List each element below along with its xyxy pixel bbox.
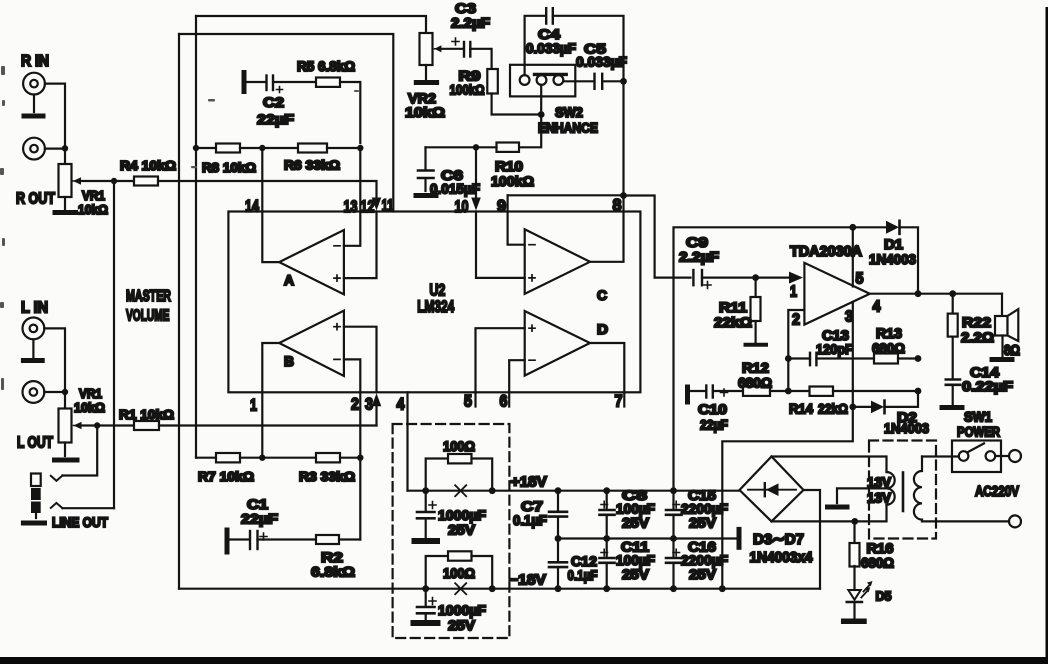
node C7 top (555, 487, 562, 494)
switch SW1 POWER (952, 409, 1009, 473)
ground LINE OUT jack (23, 513, 44, 523)
capacitor C16 2200uF (666, 539, 728, 589)
svg-text:D1: D1 (884, 236, 903, 252)
node C16 bottom (670, 585, 677, 592)
wire R13 to output column (898, 357, 918, 359)
wire R OUT jack to node (45, 148, 65, 150)
svg-text:3: 3 (365, 395, 373, 414)
op-amp U2 LM324 box (228, 212, 640, 393)
svg-text:10kΩ: 10kΩ (78, 202, 108, 217)
svg-text:10kΩ: 10kΩ (74, 400, 105, 415)
wire SW2 node to R10 (519, 115, 541, 148)
wire TDA pin5 to +V rail (852, 227, 854, 286)
speaker 8ohm (995, 294, 1020, 359)
wire U2B inverting to pin2 (344, 359, 360, 392)
wire primary top to SW1 (922, 455, 959, 457)
wire R8 to R6 (240, 147, 298, 149)
wire U2B output to pin1 (262, 343, 279, 392)
node C15 C16 mid (670, 535, 677, 542)
wire D2 to R14 node (885, 391, 919, 407)
wire W1 top rail to VR2 (196, 16, 426, 33)
node +18 snubber right (489, 487, 496, 494)
ground VR1 left (55, 443, 78, 461)
svg-text:10kΩ: 10kΩ (405, 104, 445, 120)
switch SW2 ENHANCE (510, 65, 598, 136)
svg-text:TDA2030A: TDA2030A (790, 244, 863, 260)
fuse mark upper (455, 485, 466, 496)
wire SW2 left contact to C4 (525, 16, 544, 75)
diode D2 1N4003 (853, 401, 929, 436)
wire pin1 column (261, 392, 263, 457)
wire pin8 node to C9 (624, 196, 691, 278)
svg-text:R4 10kΩ: R4 10kΩ (120, 158, 176, 173)
svg-text:0.1µF: 0.1µF (568, 567, 598, 583)
wire center tap (837, 488, 887, 503)
wire TDA pin2 down (788, 310, 804, 391)
node R8 left (193, 145, 199, 151)
capacitor C11 100uF (600, 539, 656, 589)
svg-text:680Ω: 680Ω (738, 375, 772, 391)
svg-text:R11: R11 (719, 299, 747, 315)
svg-text:6: 6 (500, 392, 508, 411)
svg-text:25V: 25V (622, 566, 650, 582)
wire C3 to R9 (470, 49, 491, 69)
svg-text:22kΩ: 22kΩ (714, 314, 752, 330)
svg-text:D: D (597, 321, 608, 337)
capacitor C7 0.1uF (513, 491, 567, 539)
resistor R12 680 (738, 360, 772, 396)
wire bridge bottom to secondary (772, 505, 887, 521)
jack J1 R IN (21, 53, 49, 95)
svg-text:POWER: POWER (957, 424, 1000, 440)
node -18 snubber right (489, 585, 496, 592)
wire TDA output row (870, 293, 1002, 295)
ground center tap (828, 505, 848, 510)
op-amp U1 TDA2030A (790, 244, 881, 329)
wire C5 node to pin8 node (622, 81, 624, 195)
node pin2 feedback (357, 455, 363, 461)
wire pin9 to pin8 node (508, 194, 624, 196)
resistor R8 10k (202, 144, 256, 176)
potentiometer VR1 (right) (59, 152, 109, 218)
wire C1 to R2 (258, 538, 317, 540)
wire node to C6 (426, 146, 477, 148)
svg-text:R5 6.8kΩ: R5 6.8kΩ (297, 59, 355, 74)
wire U2C inverting to pin9 (508, 195, 525, 244)
svg-text:1N4003x4: 1N4003x4 (750, 550, 813, 566)
svg-text:0.22µF: 0.22µF (962, 378, 1014, 394)
svg-text:C2: C2 (263, 94, 284, 110)
wire pin3 to -18V (722, 407, 853, 589)
wire U2A output to pin14 (262, 212, 279, 263)
node R input junction (62, 145, 68, 151)
resistor R3 33k (299, 453, 355, 484)
node R22 tap (949, 290, 956, 297)
svg-text:22µF: 22µF (257, 111, 295, 127)
svg-text:100kΩ: 100kΩ (450, 82, 485, 98)
wire VR1 wiper to R4 (81, 180, 134, 182)
svg-text:1N4003: 1N4003 (884, 420, 929, 436)
ground bar mid row (737, 529, 742, 547)
wire pin4 to +18V (406, 392, 408, 490)
svg-text:D5: D5 (876, 589, 892, 604)
svg-text:4: 4 (397, 395, 405, 414)
svg-text:680Ω: 680Ω (872, 340, 905, 356)
node -18 snubber left (422, 585, 429, 592)
node C4 C5 junction (620, 78, 627, 85)
svg-text:0.033µF: 0.033µF (526, 40, 576, 56)
wire R2 to node2 (339, 538, 360, 540)
bridge rectifier D3-D7 (740, 457, 804, 522)
scan border bottom (0, 657, 1048, 664)
wire L IN jack to node (44, 328, 65, 392)
resistor R2 6.8k (311, 535, 355, 580)
node output (915, 290, 922, 297)
wire C5 to node (602, 80, 623, 82)
svg-text:L IN: L IN (21, 300, 48, 317)
wire D1 to output column (900, 227, 919, 293)
fuse mark lower (455, 583, 466, 594)
wire C4 to C5 node (553, 16, 624, 78)
node pin13 feedback (357, 145, 363, 151)
diode D1 1N4003 (869, 221, 916, 267)
wire TDA pin3 down (852, 302, 854, 407)
node pin8 (620, 192, 627, 199)
ground speaker (992, 336, 1012, 360)
svg-text:100Ω: 100Ω (443, 565, 475, 581)
pin 3 label and arrow (365, 393, 381, 425)
wire R12 to node (770, 390, 788, 392)
capacitor C9 2.2uF (679, 234, 719, 289)
wire line-out switch lower (63, 507, 115, 509)
terminal AC bottom (1009, 515, 1021, 527)
arrow into TDA pin1 (789, 272, 803, 284)
wire -18V rail (179, 588, 820, 590)
text MASTER VOLUME (126, 288, 171, 325)
wire C10 to R12 (713, 390, 743, 392)
pin 10 label and arrow (455, 197, 481, 216)
svg-text:VR1: VR1 (79, 386, 102, 401)
terminal AC top (1009, 450, 1021, 462)
node R16 tap (851, 518, 858, 525)
node C8 C11 mid (603, 535, 610, 542)
svg-text:12: 12 (361, 197, 375, 216)
jack J4 L OUT (17, 381, 53, 451)
capacitor 1000uF lower (417, 589, 486, 633)
svg-text:13: 13 (344, 197, 358, 216)
resistor 100 ohm upper (426, 438, 493, 491)
resistor R5 6.8k (297, 59, 355, 87)
node C11 bottom (603, 585, 610, 592)
svg-text:1: 1 (790, 284, 797, 301)
transformer core (902, 473, 905, 512)
svg-text:0.1µF: 0.1µF (513, 512, 547, 528)
svg-text:100kΩ: 100kΩ (491, 173, 534, 189)
node L wiper junction (94, 422, 100, 428)
ground VR1 right (55, 197, 76, 213)
op-amp U2D (525, 311, 608, 376)
ground C6 (416, 193, 436, 198)
switch contact upper (line out) (51, 476, 63, 481)
svg-text:−18V: −18V (509, 573, 546, 589)
svg-text:A: A (284, 272, 294, 288)
resistor R6 33k (284, 144, 340, 173)
node pin5 rail (849, 224, 856, 231)
svg-text:680Ω: 680Ω (861, 555, 894, 571)
node R13 right (915, 355, 922, 362)
svg-text:2.2µF: 2.2µF (451, 15, 490, 31)
svg-text:L OUT: L OUT (17, 435, 53, 452)
node C7 C12 mid (555, 535, 562, 542)
wire master volume line down (113, 181, 115, 508)
node R12 R14 (785, 388, 792, 395)
node pin14 feedback (259, 145, 265, 151)
svg-text:120pF: 120pF (816, 341, 853, 357)
svg-text:22µF: 22µF (241, 511, 279, 527)
node -18 D2 junction (719, 585, 726, 592)
capacitor C4 0.033uF (526, 8, 576, 56)
wire R3 to node2 (340, 457, 360, 459)
svg-text:2.2Ω: 2.2Ω (961, 329, 994, 345)
svg-text:C: C (597, 287, 607, 303)
wire U2D non-inverting to pin5 (476, 328, 525, 406)
node L input junction (62, 389, 68, 395)
wire +18V rail (408, 490, 740, 492)
svg-text:R10: R10 (495, 158, 523, 174)
wire U2A inverting to pin13 (344, 212, 360, 246)
capacitor C1 22uF (227, 496, 279, 552)
switch contact lower (line out) (51, 503, 63, 508)
wire R5 to node13 (340, 82, 360, 143)
node C6 pin10 (473, 144, 479, 150)
wire C2 to R5 (273, 81, 316, 83)
capacitor C14 0.22uF (946, 337, 1014, 404)
transformer T1 dashed box (869, 441, 936, 539)
resistor 100 ohm lower (426, 551, 493, 588)
svg-text:8: 8 (613, 196, 622, 215)
svg-text:R12: R12 (742, 360, 769, 376)
capacitor C8 100uF (600, 487, 656, 539)
svg-text:100Ω: 100Ω (443, 438, 475, 454)
wire -18 feed from bridge (804, 490, 821, 589)
svg-text:25V: 25V (448, 617, 476, 633)
capacitor C6 0.015uF (418, 147, 480, 196)
svg-text:8Ω: 8Ω (1004, 343, 1020, 359)
wire node13 to pin13 (359, 148, 361, 212)
node C15 top (670, 487, 677, 494)
svg-text:VR1: VR1 (82, 188, 105, 203)
wire R9 to SW2 node (492, 94, 542, 115)
wire pin14 column (261, 148, 263, 212)
dashed box power filter (393, 424, 510, 638)
svg-text:R8 10kΩ: R8 10kΩ (202, 160, 256, 175)
capacitor C10 22uF (688, 386, 729, 433)
wire R7 to R3 (240, 457, 316, 459)
svg-text:R1 10kΩ: R1 10kΩ (119, 407, 174, 422)
svg-text:C10: C10 (698, 401, 727, 417)
svg-text:25V: 25V (448, 522, 476, 538)
jack J2 R OUT (16, 138, 55, 208)
node pin1 feedback (259, 455, 265, 461)
wire primary bottom to AC terminal (922, 520, 1009, 522)
svg-text:10: 10 (455, 197, 469, 216)
svg-text:R13: R13 (876, 325, 902, 341)
wire ground mid row (558, 537, 737, 539)
svg-text:1000µF: 1000µF (438, 602, 486, 618)
capacitor C13 120pF (788, 327, 874, 365)
svg-text:22kΩ: 22kΩ (818, 401, 848, 417)
svg-text:6.8kΩ: 6.8kΩ (311, 564, 355, 580)
capacitor C5 0.033uF (576, 41, 627, 89)
wire U2C output to pin8 (590, 196, 624, 262)
svg-text:R22: R22 (962, 314, 991, 330)
svg-text:5: 5 (464, 392, 472, 411)
LED D5 (847, 566, 892, 604)
svg-text:R7 10kΩ: R7 10kΩ (198, 469, 254, 484)
wire L wiper to line-out switch (63, 426, 98, 476)
ground 1000uF upper (415, 538, 438, 544)
capacitor C2 22uF (244, 73, 295, 128)
wire R1 to pin 3 (159, 424, 377, 426)
svg-text:1: 1 (250, 396, 257, 415)
svg-text:22µF: 22µF (700, 417, 728, 433)
svg-text:5: 5 (856, 271, 864, 288)
svg-text:2: 2 (792, 312, 800, 329)
wire R IN jack to node (45, 84, 65, 148)
wire node to R8 (196, 147, 216, 149)
op-amp U2A (279, 230, 344, 294)
potentiometer VR2 10k (405, 33, 445, 120)
capacitor 1000uF upper (417, 491, 486, 538)
svg-text:AC220V: AC220V (975, 484, 1019, 500)
svg-text:R6 33kΩ: R6 33kΩ (284, 158, 340, 173)
resistor R10 100k (491, 143, 534, 190)
node C12 bottom (555, 585, 562, 592)
svg-text:0.033µF: 0.033µF (576, 54, 627, 70)
svg-text:ENHANCE: ENHANCE (538, 120, 598, 136)
jack J3 L IN (21, 300, 48, 340)
svg-text:R OUT: R OUT (16, 191, 55, 208)
wire U2D output to pin7 (590, 343, 624, 407)
svg-text:SW2: SW2 (555, 104, 583, 120)
capacitor C15 2200uF (666, 487, 728, 539)
resistor R9 100k (450, 68, 498, 98)
resistor R14 22k (788, 387, 848, 417)
wire node to pin10 (475, 147, 477, 197)
svg-text:4: 4 (873, 299, 881, 316)
node R11 top (752, 274, 759, 281)
wire +V rail from C15 column (674, 227, 887, 490)
node R14 right (915, 388, 922, 395)
node +18 snubber left (422, 487, 429, 494)
potentiometer VR1 (left) (59, 386, 106, 443)
svg-text:9: 9 (497, 197, 506, 216)
capacitor C12 0.1uF (549, 539, 598, 589)
wire R4 to pin 12 (158, 181, 377, 198)
svg-text:R3 33kΩ: R3 33kΩ (299, 469, 355, 484)
ground L IN jack (23, 339, 42, 360)
svg-text:B: B (284, 353, 294, 369)
wire C9 to TDA input (702, 277, 789, 279)
wire VR1L wiper to R1 (82, 424, 135, 426)
svg-text:LM324: LM324 (417, 297, 454, 316)
svg-text:R14: R14 (789, 401, 813, 417)
svg-text:MASTER: MASTER (126, 288, 171, 305)
svg-text:11: 11 (382, 196, 394, 215)
ground 1000uF lower (414, 620, 438, 626)
resistor R11 22k (714, 278, 761, 330)
svg-text:25V: 25V (622, 515, 650, 531)
svg-text:25V: 25V (689, 566, 717, 582)
svg-text:SW1: SW1 (964, 409, 992, 425)
transformer primary winding (914, 457, 922, 522)
resistor R22 2.2 (948, 294, 994, 345)
svg-text:13V: 13V (867, 491, 891, 506)
wire R6 to node13 (327, 147, 360, 149)
resistor R7 10k (196, 453, 254, 484)
wire U2D inverting to pin6 (509, 360, 525, 406)
svg-text:R IN: R IN (21, 53, 49, 70)
node C8 top (603, 487, 610, 494)
wire U2B non-inverting to pin3 (344, 327, 377, 393)
wire R14 to output column (833, 390, 918, 392)
node D2 anode (849, 404, 856, 411)
wire SW2 mid contact down (540, 85, 542, 111)
resistor R16 680 (850, 521, 895, 570)
wire SW2 right contact to C5 (563, 80, 593, 82)
svg-text:D3∼D7: D3∼D7 (753, 531, 804, 548)
wire bridge top to secondary (772, 457, 887, 473)
svg-text:25V: 25V (689, 515, 717, 531)
resistor R4 10k (120, 158, 176, 186)
wire W1 vertical (195, 16, 197, 458)
ground R11 (746, 321, 767, 345)
node C13 left (785, 355, 792, 362)
resistor R13 680 (872, 325, 905, 364)
node SW2 junction (538, 111, 545, 118)
ground R IN jack (24, 95, 43, 117)
jack J5 LINE OUT (31, 474, 108, 531)
resistor R1 10k (119, 407, 174, 430)
wire L OUT jack to node (44, 391, 65, 393)
ground VR2 (416, 65, 436, 83)
wire pin2 column to R2 (359, 392, 361, 539)
transformer secondary winding 13V 13V (867, 472, 895, 506)
capacitor C3 2.2uF (440, 0, 490, 57)
svg-text:7: 7 (615, 392, 623, 411)
wire W2 top (179, 34, 393, 212)
node master volume R (111, 178, 117, 184)
svg-text:1N4003: 1N4003 (869, 251, 916, 267)
svg-text:VOLUME: VOLUME (126, 308, 170, 325)
op-amp U2B (279, 311, 344, 376)
svg-text:LINE OUT: LINE OUT (52, 514, 108, 530)
wire U2C non-inverting to pin10 (476, 212, 525, 278)
svg-text:14: 14 (245, 197, 259, 216)
ground D5 (844, 602, 864, 621)
wire U2A non-inverting to pin12 (344, 212, 377, 279)
pin 12 label and arrow (361, 197, 382, 216)
svg-text:2.2µF: 2.2µF (679, 249, 719, 265)
svg-text:2: 2 (351, 395, 359, 414)
ground C14 (942, 405, 962, 410)
wire R10 to C6 node (476, 146, 497, 148)
op-amp U2C (525, 229, 607, 303)
svg-text:+18V: +18V (511, 475, 547, 491)
wire W2 vertical to -18V (178, 34, 180, 589)
